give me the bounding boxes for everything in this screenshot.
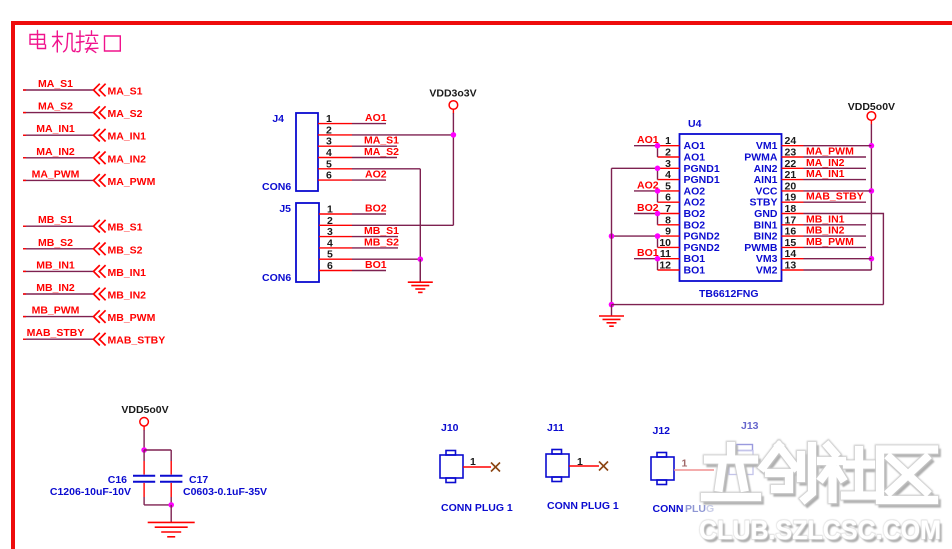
svg-text:MA_IN1: MA_IN1 [806, 168, 845, 180]
svg-text:9: 9 [665, 226, 671, 238]
U4 pin 19 STBY [749, 192, 803, 209]
net label MB_S1 (J5.3) [352, 225, 399, 237]
wire J4.2 to VDD3o3V [352, 134, 453, 136]
J5 pin 6 [319, 260, 352, 272]
U4 pin 24 VM1 [756, 135, 804, 152]
svg-text:C1206-10uF-10V: C1206-10uF-10V [50, 486, 131, 498]
port MB_S1 [23, 214, 143, 234]
svg-text:AO1: AO1 [637, 134, 659, 146]
svg-text:8: 8 [665, 214, 671, 226]
U4 pin 21 AIN1 [754, 169, 804, 186]
svg-text:MB_S2: MB_S2 [364, 236, 399, 248]
svg-text:CONN PLUG 1: CONN PLUG 1 [441, 502, 513, 514]
capacitor C16 [50, 450, 155, 505]
svg-text:VM3: VM3 [756, 253, 778, 265]
svg-text:3: 3 [327, 226, 333, 238]
svg-text:PWMA: PWMA [744, 152, 778, 164]
svg-text:3: 3 [665, 158, 671, 170]
svg-text:3: 3 [326, 136, 332, 148]
svg-text:MAB_STBY: MAB_STBY [27, 327, 85, 339]
U4 pin 4 PGND1 [658, 169, 720, 186]
svg-text:MB_IN2: MB_IN2 [806, 225, 845, 237]
svg-text:19: 19 [785, 192, 797, 204]
svg-text:1: 1 [326, 113, 332, 125]
port MB_PWM [23, 305, 156, 325]
svg-text:2: 2 [665, 147, 671, 159]
U4 pin 5 AO2 [658, 180, 706, 197]
svg-text:MB_S1: MB_S1 [108, 222, 143, 234]
svg-text:VM1: VM1 [756, 140, 778, 152]
svg-text:PGND2: PGND2 [684, 242, 720, 254]
svg-text:AO1: AO1 [684, 152, 706, 164]
connector J12 [651, 425, 714, 515]
svg-text:STBY: STBY [749, 197, 777, 209]
svg-text:MB_IN1: MB_IN1 [806, 213, 845, 225]
svg-text:BO2: BO2 [684, 219, 706, 231]
svg-text:BO2: BO2 [684, 208, 706, 220]
svg-text:VDD5o0V: VDD5o0V [121, 404, 168, 416]
wire PGND2 (U4.9-10) [609, 233, 661, 247]
J5 pin 5 [319, 249, 352, 261]
svg-text:J4: J4 [272, 113, 284, 125]
J4 pin 4 [318, 147, 352, 159]
svg-text:J13: J13 [741, 420, 759, 432]
svg-text:J5: J5 [279, 203, 291, 215]
U4 pin 11 BO1 [658, 248, 706, 265]
U4 pin 8 BO2 [658, 214, 706, 231]
net label MA_IN1 (U4.21) [804, 168, 867, 180]
wire VDD5o0V rail [869, 124, 875, 270]
connector J13 [729, 420, 759, 475]
U4 pin 20 VCC [755, 180, 803, 197]
svg-text:5: 5 [326, 158, 332, 170]
connector J11 [546, 422, 619, 512]
svg-text:MA_S2: MA_S2 [364, 146, 399, 158]
svg-text:VCC: VCC [755, 185, 778, 197]
svg-text:AO2: AO2 [684, 197, 706, 209]
J4 pin 1 [318, 113, 352, 125]
svg-text:22: 22 [785, 158, 797, 170]
svg-text:AIN1: AIN1 [754, 174, 778, 186]
U4 pin 14 VM3 [756, 248, 804, 265]
net label MA_IN2 (U4.22) [804, 157, 867, 169]
connector J5 [262, 203, 319, 284]
wire VDD to caps [141, 430, 171, 453]
op-amp U4 TB6612FNG body [680, 118, 782, 300]
svg-text:TB6612FNG: TB6612FNG [699, 288, 759, 300]
port MA_IN1 [23, 123, 146, 143]
net label AO1 (J4.1) [352, 112, 387, 124]
net label MA_S2 (J4.4) [352, 146, 399, 158]
svg-text:AO2: AO2 [684, 185, 706, 197]
svg-text:MB_IN1: MB_IN1 [108, 267, 147, 279]
svg-text:GND: GND [754, 208, 778, 220]
J5 pin 1 [319, 204, 352, 216]
J4 pin 5 [318, 158, 352, 170]
svg-text:BO1: BO1 [637, 247, 659, 259]
svg-text:12: 12 [659, 260, 671, 272]
svg-text:MAB_STBY: MAB_STBY [108, 335, 166, 347]
svg-text:MA_PWM: MA_PWM [32, 168, 80, 180]
power VDD5o0V (caps) [121, 404, 168, 430]
svg-text:1: 1 [665, 135, 671, 147]
svg-text:14: 14 [785, 248, 797, 260]
svg-text:6: 6 [327, 260, 333, 272]
J4 pin 6 [318, 170, 352, 182]
net label MB_IN2 (U4.16) [804, 225, 867, 237]
J4 pin 3 [318, 136, 352, 148]
svg-text:1: 1 [470, 456, 476, 468]
svg-text:CONN PLUG 1: CONN PLUG 1 [547, 500, 619, 512]
svg-text:MB_S2: MB_S2 [38, 237, 73, 249]
svg-text:24: 24 [785, 135, 797, 147]
svg-text:BO2: BO2 [365, 203, 387, 215]
net label MA_S1 (J4.3) [352, 135, 399, 147]
svg-text:MA_S1: MA_S1 [38, 78, 73, 90]
svg-text:AO2: AO2 [637, 179, 659, 191]
wire U4.20 VCC to VDD [804, 190, 872, 192]
net label MAB_STBY (U4.19) [804, 191, 867, 203]
svg-text:AO1: AO1 [684, 140, 706, 152]
svg-text:5: 5 [665, 180, 671, 192]
svg-text:4: 4 [326, 147, 332, 159]
wire J5.5 junction [352, 256, 423, 262]
connector J10 [440, 422, 513, 514]
U4 pin 10 PGND2 [658, 237, 720, 254]
svg-text:5: 5 [327, 249, 333, 261]
wire caps bottom [144, 502, 174, 508]
svg-text:CONN: CONN [653, 503, 684, 515]
svg-text:AO2: AO2 [365, 169, 387, 181]
port MA_PWM [23, 168, 156, 188]
net label MB_S2 (J5.4) [352, 236, 399, 248]
U4 pin 6 AO2 [658, 192, 706, 209]
U4 pin 15 PWMB [744, 237, 803, 254]
port MB_S2 [23, 237, 143, 256]
svg-text:AO1: AO1 [365, 112, 387, 124]
svg-text:BO1: BO1 [684, 265, 706, 277]
svg-text:6: 6 [326, 170, 332, 182]
svg-text:1: 1 [682, 458, 688, 470]
svg-text:PGND1: PGND1 [684, 174, 720, 186]
svg-text:BIN2: BIN2 [754, 231, 778, 243]
svg-text:J11: J11 [547, 422, 564, 434]
svg-text:BO2: BO2 [637, 202, 659, 214]
svg-text:MB_S2: MB_S2 [108, 244, 143, 256]
svg-text:MB_S1: MB_S1 [364, 225, 399, 237]
ground (U4) [599, 305, 624, 327]
svg-text:MB_PWM: MB_PWM [806, 236, 854, 248]
port MA_S1 [23, 78, 143, 98]
svg-text:U4: U4 [688, 118, 702, 130]
svg-text:CON6: CON6 [262, 272, 291, 284]
wire bottom ground bus [612, 304, 884, 306]
port MA_IN2 [23, 146, 146, 166]
svg-text:4: 4 [327, 237, 333, 249]
wire U4.18 GND route [804, 214, 884, 305]
svg-text:MA_PWM: MA_PWM [806, 146, 854, 158]
ground (caps) [148, 505, 195, 537]
svg-text:PLU: PLU [685, 503, 706, 515]
svg-text:1: 1 [327, 204, 333, 216]
wire ground rail left of U4 [609, 168, 615, 307]
U4 pin 3 PGND1 [658, 158, 720, 175]
svg-text:MA_IN2: MA_IN2 [806, 157, 845, 169]
svg-text:MA_IN1: MA_IN1 [108, 131, 147, 143]
net label BO2 (J5.1) [352, 203, 387, 215]
svg-text:20: 20 [785, 180, 797, 192]
svg-text:MB_IN2: MB_IN2 [36, 282, 75, 294]
port MB_IN2 [23, 282, 146, 302]
svg-text:6: 6 [665, 192, 671, 204]
svg-text:BO1: BO1 [365, 259, 387, 271]
net label BO1 (U4.11-12) [634, 247, 660, 270]
svg-text:17: 17 [785, 214, 797, 226]
svg-text:MB_IN1: MB_IN1 [36, 259, 75, 271]
U4 pin 7 BO2 [658, 203, 706, 220]
net label MA_PWM (U4.23) [804, 146, 867, 158]
capacitor C17 [160, 450, 267, 505]
svg-text:MB_S1: MB_S1 [38, 214, 73, 226]
net label AO2 (J4.6) [352, 169, 387, 181]
svg-text:MA_IN2: MA_IN2 [36, 146, 75, 158]
svg-text:MA_S2: MA_S2 [38, 101, 73, 113]
U4 pin 2 AO1 [658, 147, 706, 164]
U4 pin 22 AIN2 [754, 158, 804, 175]
port MA_S2 [23, 101, 143, 121]
svg-text:J10: J10 [441, 422, 459, 434]
U4 pin 1 AO1 [658, 135, 706, 152]
svg-text:AIN2: AIN2 [754, 163, 778, 175]
wire U4.14 VM3 to VDD [804, 258, 872, 260]
svg-text:10: 10 [659, 237, 671, 249]
net label MB_IN1 (U4.17) [804, 213, 867, 225]
svg-text:C16: C16 [108, 474, 127, 486]
ground (J4/J5) [408, 259, 433, 292]
wire J4.5 to ground [352, 169, 420, 282]
wire U4.13 VM2 to VDD [804, 269, 872, 271]
svg-text:16: 16 [785, 226, 797, 238]
svg-text:18: 18 [785, 203, 797, 215]
svg-text:MAB_STBY: MAB_STBY [806, 191, 864, 203]
svg-text:21: 21 [785, 169, 797, 181]
svg-text:MA_PWM: MA_PWM [108, 176, 156, 188]
svg-text:11: 11 [660, 248, 671, 260]
svg-text:15: 15 [785, 237, 797, 249]
wire VDD3o3V rail [451, 113, 457, 225]
svg-text:PGND1: PGND1 [684, 163, 720, 175]
net label MB_PWM (U4.15) [804, 236, 867, 248]
power VDD5o0V (U4) [848, 101, 895, 125]
svg-text:2: 2 [327, 215, 333, 227]
wire PGND1 (U4.3-4) [612, 166, 661, 180]
svg-text:13: 13 [785, 260, 797, 272]
U4 pin 17 BIN1 [754, 214, 804, 231]
svg-text:7: 7 [665, 203, 671, 215]
port MB_IN1 [23, 259, 146, 279]
net label BO1 (J5.6) [352, 259, 387, 271]
svg-text:PWMB: PWMB [744, 242, 778, 254]
svg-text:C17: C17 [189, 474, 208, 486]
svg-text:4: 4 [665, 169, 671, 181]
port MAB_STBY [23, 327, 165, 347]
net label AO1 (U4.1-2) [634, 134, 660, 157]
svg-text:MA_IN1: MA_IN1 [36, 123, 75, 135]
title 电机接口 [30, 31, 120, 53]
J5 pin 2 [319, 215, 352, 227]
svg-text:PGND2: PGND2 [684, 231, 720, 243]
svg-text:BO1: BO1 [684, 253, 706, 265]
svg-text:MB_IN2: MB_IN2 [108, 290, 147, 302]
svg-text:CLUB.SZLCSC.COM: CLUB.SZLCSC.COM [699, 515, 941, 545]
svg-text:MB_PWM: MB_PWM [108, 312, 156, 324]
U4 pin 9 PGND2 [658, 226, 720, 243]
svg-text:MA_S2: MA_S2 [108, 108, 143, 120]
svg-text:23: 23 [785, 147, 797, 159]
wire U4.24 VM1 to VDD [804, 145, 872, 147]
J4 pin 2 [318, 124, 352, 136]
svg-text:2: 2 [326, 124, 332, 136]
svg-text:MA_IN2: MA_IN2 [108, 153, 147, 165]
svg-text:1: 1 [577, 456, 583, 468]
power VDD3o3V [429, 88, 476, 114]
svg-text:CON6: CON6 [262, 181, 291, 193]
J5 pin 3 [319, 226, 352, 238]
svg-text:MA_S1: MA_S1 [108, 86, 143, 98]
U4 pin 16 BIN2 [754, 226, 804, 243]
svg-text:C0603-0.1uF-35V: C0603-0.1uF-35V [183, 486, 267, 498]
connector J4 [262, 113, 318, 193]
svg-text:J12: J12 [653, 425, 671, 437]
U4 pin 18 GND [754, 203, 803, 220]
svg-text:BIN1: BIN1 [754, 219, 778, 231]
U4 pin 12 BO1 [658, 260, 706, 277]
net label BO2 (U4.7-8) [634, 202, 660, 225]
svg-text:VM2: VM2 [756, 265, 778, 277]
J5 pin 4 [319, 237, 352, 249]
U4 pin 23 PWMA [744, 147, 803, 164]
net label AO2 (U4.5-6) [634, 179, 660, 202]
svg-text:VDD3o3V: VDD3o3V [429, 88, 476, 100]
svg-text:MB_PWM: MB_PWM [32, 305, 80, 317]
U4 pin 13 VM2 [756, 260, 804, 277]
svg-text:G: G [706, 503, 714, 515]
wire J5.2 to VDD3o3V [352, 224, 453, 226]
svg-text:MA_S1: MA_S1 [364, 135, 399, 147]
